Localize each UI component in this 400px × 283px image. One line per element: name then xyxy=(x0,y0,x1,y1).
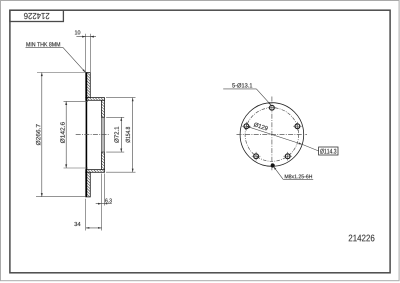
part number 214226 bottom right xyxy=(349,235,375,242)
section centerline xyxy=(76,134,110,136)
bolt hole lower-right xyxy=(283,152,292,161)
dim dia72.1 extension lines xyxy=(106,116,124,118)
note MIN THK 8MM xyxy=(26,42,60,46)
dim dia129 diagonal line xyxy=(246,126,302,144)
note 5-dia13.1 leader xyxy=(256,89,270,105)
dim dia114.3 label xyxy=(320,149,336,154)
dim dia142.6 extension lines xyxy=(64,100,89,102)
dim dia114.3 box xyxy=(319,147,338,155)
dim dia154.8 extension lines xyxy=(106,97,136,99)
dim 10 extension lines xyxy=(85,34,87,73)
dim dia72.1 label xyxy=(114,127,119,143)
dim dia266.7 label xyxy=(36,124,41,145)
dim 6.3 label xyxy=(105,198,112,202)
bolt hole lower-left xyxy=(252,152,261,161)
part number 214226 in title box (rotated 180) xyxy=(24,13,49,19)
dim 34 dimension line xyxy=(86,227,102,229)
horizontal centerline xyxy=(237,134,308,136)
disc section: bottom hat flange strip xyxy=(86,170,105,173)
bolt hole upper-right xyxy=(293,122,302,131)
vertical centerline xyxy=(271,97,273,172)
disc section: top friction band xyxy=(86,73,91,98)
dim dia129 label xyxy=(253,122,268,131)
title box xyxy=(10,10,64,21)
dim dia114.3 leader xyxy=(302,144,319,151)
dim dia72.1 dimension line xyxy=(120,117,122,152)
bolt circle (centerline) xyxy=(245,108,299,162)
outboard friction face thick edge xyxy=(85,73,87,197)
bolt hole upper-left xyxy=(242,122,251,131)
note 5-dia13.1 xyxy=(232,83,252,87)
dim dia266.7 extension lines xyxy=(37,72,85,74)
dim dia142.6 label xyxy=(60,122,65,143)
dim dia154.8 dimension line xyxy=(132,98,134,173)
note M8 leader xyxy=(274,167,283,179)
disc section: hub plate above bore xyxy=(101,100,104,117)
dim 6.3 extension lines xyxy=(101,174,103,231)
hub outline circle xyxy=(240,103,304,167)
note M8x1.25-6H xyxy=(285,175,312,179)
bolt hole top xyxy=(268,105,277,110)
threaded hole M8 (filled dot) xyxy=(271,163,275,167)
dim 10 label xyxy=(75,30,80,34)
disc section: hub plate below bore xyxy=(101,152,104,170)
dim dia154.8 label xyxy=(126,127,131,143)
dim 34 extension line xyxy=(85,199,87,231)
dim dia266.7 dimension line xyxy=(41,73,43,197)
dim 6.3 dimension line xyxy=(96,203,112,205)
bore region of hub plate xyxy=(101,117,104,152)
disc section: bottom friction band xyxy=(86,172,91,197)
dim 10 dimension line xyxy=(76,36,96,38)
disc section: top hat flange strip xyxy=(86,98,105,101)
dim 34 label xyxy=(74,222,80,226)
dim dia142.6 dimension line xyxy=(65,101,67,168)
note leader xyxy=(63,47,85,72)
